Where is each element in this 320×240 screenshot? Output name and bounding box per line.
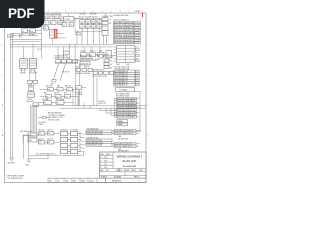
wire F7 F8 row <box>45 141 60 143</box>
svg-text:1: 1 <box>139 181 140 183</box>
svg-text:B67: B67 <box>44 93 47 95</box>
wire relay bank rows <box>68 134 80 152</box>
relay bank K7 <box>71 129 79 153</box>
wire TB5 feeders <box>112 131 141 133</box>
relay module K5 <box>116 88 135 92</box>
relay K1 <box>64 17 75 22</box>
svg-text:B20 LP: B20 LP <box>81 51 87 53</box>
fuse F7 <box>39 140 45 144</box>
capacitor C2 <box>65 95 71 99</box>
svg-text:F7: F7 <box>39 142 41 144</box>
starter solenoid K4 <box>27 92 35 103</box>
svg-text:B69 16: B69 16 <box>54 93 59 95</box>
wire mid row 3 <box>38 102 73 104</box>
battery B1 block <box>28 80 38 90</box>
resistor R3 <box>46 95 52 99</box>
border zone letters (left) <box>2 45 4 137</box>
wire J4 row stubs <box>136 99 139 117</box>
wire lower-left drop <box>28 137 30 159</box>
svg-text:1-92: 1-92 <box>104 167 107 169</box>
label rear feed pair <box>99 101 106 105</box>
terminal strip TB6 <box>114 143 136 153</box>
border zone tick marks (left) <box>3 60 5 150</box>
svg-text:B73 GA: B73 GA <box>42 98 49 101</box>
svg-text:F1: F1 <box>44 23 46 25</box>
wire long bus D <box>60 107 146 109</box>
circuit breaker CB1 (revision highlight) <box>50 29 57 38</box>
svg-text:B61 GA: B61 GA <box>46 84 53 87</box>
svg-text:5 6 7 8: 5 6 7 8 <box>29 70 34 72</box>
label S1 S2 pins <box>20 70 38 74</box>
svg-text:R1: R1 <box>70 25 72 27</box>
svg-text:B6: B6 <box>110 67 112 69</box>
svg-text:B77 FLSH: B77 FLSH <box>75 92 83 94</box>
terminal stack TS1 <box>104 59 109 69</box>
label blower speeds <box>76 67 90 69</box>
terminal row TS2 <box>93 71 114 74</box>
svg-text:B26: B26 <box>99 51 102 53</box>
svg-text:B49 B51 B53 14GA: B49 B51 B53 14GA <box>55 57 71 60</box>
terminal strip TB4 rows <box>86 127 112 146</box>
svg-text:K1 RLY: K1 RLY <box>64 19 71 21</box>
svg-text:F4: F4 <box>44 28 46 30</box>
label rows above motor feed <box>55 55 71 59</box>
svg-text:D1: D1 <box>63 25 65 27</box>
svg-text:B9 14: B9 14 <box>38 49 42 51</box>
diode D2 <box>57 88 63 92</box>
svg-text:B4: B4 <box>110 64 112 66</box>
svg-text:C1: C1 <box>67 89 69 91</box>
fuse F1 <box>44 21 50 25</box>
wire top bus to F1-F3 <box>44 13 60 20</box>
label row mid 2 <box>44 93 67 95</box>
wire gauge feeders <box>23 135 45 143</box>
title block labels <box>100 153 110 172</box>
switch S2 (headlamp) <box>29 59 36 69</box>
wire drop to switches <box>24 25 42 59</box>
junction box J5 on bus <box>33 103 38 106</box>
svg-text:B8 BAT: B8 BAT <box>29 33 35 36</box>
title block drawing title <box>117 155 143 168</box>
wire battery risers <box>30 71 36 92</box>
svg-text:1-CAB 1: 1-CAB 1 <box>134 10 142 13</box>
ground GND2 <box>25 160 31 166</box>
wire motor riser <box>79 64 81 106</box>
fuse block FB1 row 1 <box>80 20 102 23</box>
svg-text:C2: C2 <box>65 96 67 98</box>
terminal strip TB1 rows <box>114 21 140 44</box>
fuse F10 under badge <box>30 29 36 33</box>
wire F4 to CB1 <box>42 25 51 29</box>
svg-text:F5: F5 <box>39 133 41 135</box>
svg-text:K2: K2 <box>44 103 46 105</box>
wire K1 feed <box>61 13 81 25</box>
node dot heater bus <box>79 59 82 62</box>
svg-text:B12: B12 <box>19 37 22 39</box>
svg-text:THE: THE <box>118 149 121 151</box>
svg-text:B30 B32: B30 B32 <box>80 14 87 16</box>
svg-text:F10: F10 <box>30 31 33 33</box>
wire TS2 drops <box>76 60 98 106</box>
label flasher <box>75 92 83 96</box>
relay K3 <box>56 101 64 105</box>
terminal row TB0 <box>56 60 78 63</box>
wire bus D risers to J4 <box>73 89 117 115</box>
svg-text:B34 B36: B34 B36 <box>90 14 97 16</box>
label terminal stack <box>110 61 112 70</box>
svg-text:B50 B1-CAB B52 B: B50 B1-CAB B52 B <box>114 19 130 22</box>
ground GND1 <box>8 158 16 164</box>
connector J4 header <box>116 93 131 98</box>
wire J2 risers <box>104 35 107 44</box>
svg-text:R2: R2 <box>48 89 50 91</box>
svg-text:F2: F2 <box>51 23 53 25</box>
svg-text:B96 GAUGE FD: B96 GAUGE FD <box>20 130 33 133</box>
node stubs left of TB2 <box>114 47 117 61</box>
svg-text:K5 MAIN: K5 MAIN <box>120 89 128 92</box>
label T2 <box>39 122 47 126</box>
wire TB6 feeders <box>112 144 140 146</box>
junction header label J2 <box>79 14 99 19</box>
mid lower note text block <box>48 113 65 122</box>
svg-text:PNL FD 12V BAT FD RLY: PNL FD 12V BAT FD RLY <box>79 16 99 19</box>
title block frame <box>100 152 147 178</box>
svg-text:R3: R3 <box>46 96 48 98</box>
svg-text:B22 LP: B22 LP <box>90 51 96 53</box>
wire flasher taps <box>79 88 87 106</box>
svg-text:1-90: 1-90 <box>104 157 107 159</box>
svg-text:F8: F8 <box>48 142 50 144</box>
svg-text:B75 14GA: B75 14GA <box>56 98 65 101</box>
svg-text:B71: B71 <box>64 93 67 95</box>
diode D1 <box>62 23 67 27</box>
wire FB1 lower bus <box>75 19 102 45</box>
node stubs right of TB2 <box>135 47 139 62</box>
resistor R5 <box>82 68 87 71</box>
svg-text:NONE: NONE <box>124 170 130 172</box>
fuse block FB1 row 2 <box>80 25 102 28</box>
label row bottom-left bank <box>39 130 53 132</box>
fuse F2 <box>51 21 57 25</box>
terminal T3 <box>51 79 57 85</box>
terminal T2 stub <box>43 116 47 119</box>
svg-text:3-90: 3-90 <box>104 161 107 163</box>
svg-text:B63: B63 <box>57 85 60 87</box>
label panel feed note <box>75 32 83 36</box>
wire feeder row 2 <box>12 41 40 43</box>
wire S1 S2 drops <box>22 68 35 72</box>
label row bottom-left bank 2 <box>39 139 53 141</box>
resistor R6 <box>88 68 93 71</box>
terminal table TB2 rows <box>117 46 136 63</box>
wire harness diagonal 1 <box>53 64 58 81</box>
switch S4 stub box <box>99 55 103 58</box>
label heater circuit note <box>80 56 93 60</box>
wire left vertical bus 1 <box>10 34 12 159</box>
wire heater bus <box>75 59 97 61</box>
svg-text:ALL AMERICAN: ALL AMERICAN <box>123 165 137 168</box>
svg-text:MOTOR: MOTOR <box>63 71 71 73</box>
svg-text:BLUE BIRD BODY: BLUE BIRD BODY <box>8 178 24 180</box>
svg-text:B1: B1 <box>51 35 53 37</box>
svg-text:K3: K3 <box>57 103 59 105</box>
svg-text:B2: B2 <box>110 61 112 63</box>
wire TB0 bottom tie <box>56 63 78 65</box>
wire mid row 1 <box>40 88 78 90</box>
svg-text:LH SIDE UNIT: LH SIDE UNIT <box>118 138 128 140</box>
blower module M3 <box>80 62 90 66</box>
wire J4 left feed ladder <box>114 99 117 117</box>
svg-text:F3: F3 <box>58 23 60 25</box>
svg-text:F9: F9 <box>22 31 24 33</box>
svg-text:PDF: PDF <box>8 6 34 21</box>
svg-text:B79 B81: B79 B81 <box>99 101 105 103</box>
svg-text:B65 GA: B65 GA <box>65 84 72 87</box>
border zone tick numbers (top) <box>47 11 137 13</box>
wire S4 links <box>97 56 114 58</box>
revision mark (red) top-right <box>142 13 144 16</box>
resistor R2 <box>48 88 54 92</box>
connector J4 rows <box>117 97 138 118</box>
fuse F4 <box>44 26 49 30</box>
svg-text:THE: THE <box>118 136 121 138</box>
switch S1 (ignition) <box>20 59 27 69</box>
svg-text:WIRING 1D: WIRING 1D <box>112 181 122 183</box>
wire main bus B (horizontal) <box>11 46 113 48</box>
wire F5 F6 row <box>45 132 60 134</box>
svg-text:BLANK UNIT: BLANK UNIT <box>122 160 137 163</box>
svg-text:1 2 3 4: 1 2 3 4 <box>20 70 25 72</box>
wire long bus C <box>34 105 146 107</box>
wire TB0 feeders <box>58 44 75 59</box>
lamp group header labels <box>81 51 103 53</box>
svg-text:B13-B15: B13-B15 <box>63 51 70 53</box>
svg-text:B44 B46 B48 16GA: B44 B46 B48 16GA <box>114 14 130 17</box>
svg-text:B38 PNL: B38 PNL <box>75 32 81 34</box>
svg-text:9-4-92: 9-4-92 <box>89 180 94 182</box>
svg-text:D3: D3 <box>56 96 58 98</box>
terminal row header mid-left <box>46 84 72 87</box>
fuse F8 <box>48 140 54 144</box>
lamp L3 <box>98 53 105 57</box>
svg-text:D2: D2 <box>58 89 60 91</box>
wire lower vertical bus group <box>31 105 37 136</box>
svg-text:HD LP SW: HD LP SW <box>29 72 37 74</box>
spare terminal SP1 <box>117 120 128 123</box>
svg-text:M3 BLWR: M3 BLWR <box>81 63 89 65</box>
capacitor C1 <box>67 88 73 92</box>
bottom footer strip cells <box>48 178 106 182</box>
fuse F9 under badge <box>22 29 28 33</box>
svg-text:B72 FEED 16GA: B72 FEED 16GA <box>116 95 130 98</box>
svg-text:SCALE: SCALE <box>116 169 123 172</box>
title block number row <box>101 169 143 179</box>
lamp L1 <box>81 53 88 57</box>
dimmer module M2 <box>106 51 112 58</box>
svg-text:F6: F6 <box>48 133 50 135</box>
wire feeder row 1 <box>11 38 42 40</box>
spare terminal SP2 <box>117 123 128 126</box>
svg-text:ALL WIRING 16GA U.N.O.: ALL WIRING 16GA U.N.O. <box>36 152 57 155</box>
wire lamp group links <box>84 47 106 55</box>
wire harness diagonal 2 <box>60 64 65 81</box>
fuse F6 <box>48 131 54 135</box>
wire FB1 feeders <box>75 19 102 45</box>
connector fan X1 <box>80 132 85 152</box>
wire T2 link <box>38 117 48 119</box>
connector J3 rows <box>114 70 139 87</box>
svg-text:BLWR FD 14GA: BLWR FD 14GA <box>80 57 93 60</box>
border zone tick marks (top) <box>57 11 129 13</box>
svg-text:WIRING DIAGRAM 1: WIRING DIAGRAM 1 <box>117 155 143 159</box>
terminal strip TB5 <box>114 130 136 141</box>
svg-text:B: B <box>100 161 101 163</box>
fuse F3 <box>58 21 64 25</box>
bottom right sheet cell <box>106 178 147 182</box>
svg-text:CK: CK <box>57 180 59 182</box>
label bus tap pair <box>63 51 70 56</box>
label fuse ratings row 1 <box>80 20 100 23</box>
svg-text:FL1: FL1 <box>76 88 79 90</box>
junction block J2 <box>102 13 113 35</box>
svg-text:7-91: 7-91 <box>104 164 107 166</box>
fuse F5 <box>39 131 45 135</box>
border zone tick marks (right) <box>146 45 148 135</box>
svg-text:DWN: DWN <box>131 170 136 172</box>
label row for fuse group F1-F3 <box>44 13 63 20</box>
wire center long run <box>29 152 84 155</box>
svg-text:IGN SW: IGN SW <box>20 72 26 74</box>
lamp L2 <box>89 53 96 57</box>
bottom footer strip labels <box>49 179 94 182</box>
resistor R4 <box>76 68 81 71</box>
diode D3 <box>55 95 61 99</box>
sheet border frame <box>5 13 147 183</box>
node labels under badge <box>7 33 35 38</box>
wire TB1 right riser <box>139 21 140 45</box>
label fuse ratings row 2 <box>80 25 100 28</box>
resistor R1 <box>69 23 74 27</box>
svg-text:B90 B92 14GA: B90 B92 14GA <box>48 119 60 122</box>
wire CB1 output <box>53 34 65 45</box>
svg-text:C AFFILIATED CHART: C AFFILIATED CHART <box>6 174 25 177</box>
wire left vertical bus 2 <box>11 34 13 159</box>
label row mid 3 <box>42 98 65 101</box>
wire bottom-left long run <box>24 136 49 159</box>
wire mid row 2 <box>40 95 78 97</box>
svg-text:B98 GND: B98 GND <box>8 162 16 164</box>
wire under-badge tie <box>28 30 42 32</box>
wire right bus riser <box>135 92 141 132</box>
PDF badge <box>0 0 45 28</box>
flasher unit FL1 <box>76 86 82 90</box>
wire main bus A (horizontal) <box>11 43 113 45</box>
svg-text:ST: ST <box>109 19 111 21</box>
gauge cluster G1 <box>20 130 37 142</box>
svg-text:B10 ACC: B10 ACC <box>7 36 15 39</box>
node tag on bus B <box>38 49 42 51</box>
svg-text:RR FD 14: RR FD 14 <box>99 103 106 105</box>
svg-text:B109 PNK 16GA HORN FD: B109 PNK 16GA HORN FD <box>114 41 136 44</box>
connector J3 header labels <box>115 64 130 70</box>
svg-text:ST SOL: ST SOL <box>27 99 33 101</box>
svg-text:B116 PNK-BLK 16: B116 PNK-BLK 16 <box>114 85 127 87</box>
relay K2 <box>44 101 52 105</box>
wire badge-edge feeders <box>11 34 42 36</box>
relay bank K6 <box>61 129 69 153</box>
